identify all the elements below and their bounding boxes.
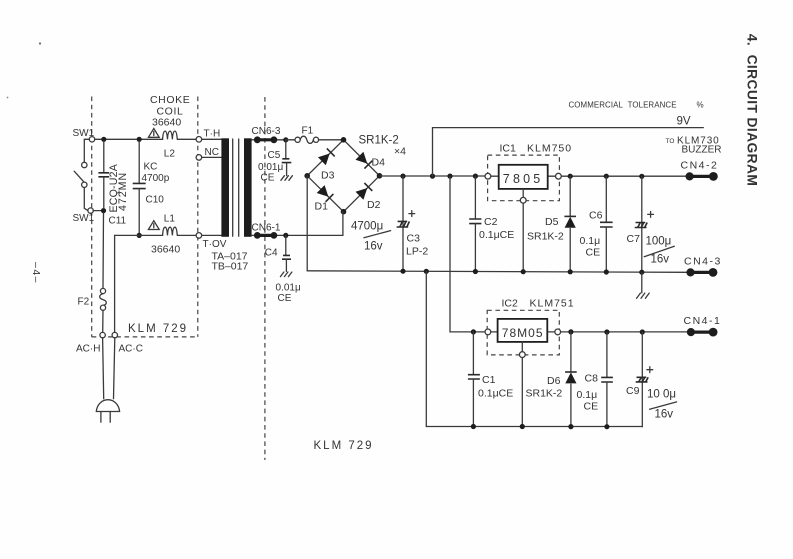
wire: plug cord left — [103, 338, 104, 399]
switch SW1 arm — [74, 171, 84, 182]
connector CN6-1 pin 2 — [271, 232, 278, 239]
node: C8 tap — [604, 329, 609, 334]
plus sign C7 — [648, 212, 654, 218]
node: junction C10 bottom on L1 wire — [137, 233, 142, 238]
svg-text:10 0μ: 10 0μ — [647, 389, 676, 401]
switch SW1 upper throw contact — [82, 162, 87, 167]
svg-text:C2: C2 — [484, 216, 498, 228]
connector CN4-3 pin inner — [686, 268, 694, 276]
wire: IC2 output rail to CN4-1 — [561, 331, 688, 333]
terminal AC-H — [100, 332, 105, 337]
switch SW1 top fixed contact — [89, 137, 94, 142]
IC2 ground pin — [519, 352, 525, 358]
capacitor C7 upper lead — [641, 176, 643, 272]
svg-text:0.1μ: 0.1μ — [577, 389, 598, 401]
svg-text:D5: D5 — [545, 216, 559, 228]
svg-text:0.1μCE: 0.1μCE — [479, 229, 514, 241]
svg-text:×4: ×4 — [394, 146, 406, 158]
KLM729 board dashed outline bottom edge — [92, 336, 197, 338]
wire: 0V rail section 1 to CN4-3 — [307, 271, 687, 273]
capacitor C5 plates — [282, 159, 292, 163]
fraction slash (C9) — [650, 402, 677, 409]
node: 9V branch tap — [430, 174, 435, 179]
svg-text:0.1μCE: 0.1μCE — [478, 388, 513, 400]
wire: junction down to fuse F2 — [102, 213, 105, 288]
connector CN4-2 pin inner — [686, 172, 694, 180]
svg-text:KLM 729: KLM 729 — [314, 440, 374, 452]
IC1 module dashed box — [488, 155, 560, 201]
svg-text:4700μ: 4700μ — [351, 221, 383, 233]
wire: F1 to bridge top node — [319, 139, 344, 141]
diode D1 — [317, 185, 329, 197]
svg-text:T·OV: T·OV — [203, 239, 227, 250]
fuse F2 top terminal — [100, 288, 105, 293]
node: C3 bottom — [400, 269, 405, 274]
svg-text:SW1: SW1 — [73, 128, 95, 139]
wire: F2 to AC-H terminal — [102, 310, 104, 332]
node: IC2 feed tap — [447, 174, 452, 179]
svg-text:78M05: 78M05 — [502, 326, 544, 340]
svg-text:0.1μ: 0.1μ — [580, 235, 601, 247]
svg-text:CN4-3: CN4-3 — [684, 256, 722, 268]
svg-text:KC: KC — [144, 162, 158, 173]
svg-text:4. CIRCUIT DIAGRAM: 4. CIRCUIT DIAGRAM — [745, 34, 760, 186]
node: IC1 ground bottom — [521, 269, 526, 274]
terminal AC-C — [112, 332, 117, 337]
svg-text:TB–017: TB–017 — [212, 261, 249, 273]
node: link to lower 0V rail — [424, 269, 429, 274]
switch SW1 bottom fixed contact — [88, 208, 93, 213]
wire: choke L2 to terminal T-H — [178, 138, 197, 140]
wire: secondary top to CN6-3 — [252, 139, 286, 141]
IC2 module dashed box — [487, 310, 559, 355]
main board dashed boundary line — [264, 97, 266, 460]
capacitor C3 lead — [402, 176, 404, 271]
capacitor C6 lower lead — [605, 227, 607, 272]
capacitor C6 plates — [600, 222, 613, 227]
node: D5 bottom — [568, 269, 573, 274]
svg-text:KLM750: KLM750 — [527, 143, 572, 155]
IC2 ground pin lead — [521, 342, 523, 352]
capacitor C11 plates — [98, 173, 109, 177]
diode D2 — [356, 188, 368, 200]
svg-text:D3: D3 — [321, 170, 335, 182]
wire: IC2 ground to lower 0V rail — [521, 358, 523, 427]
node: C7 bottom / ground stem — [639, 270, 644, 275]
fraction slash (C7) — [644, 246, 674, 256]
svg-text:SR1K-2: SR1K-2 — [526, 388, 563, 400]
svg-text:AC·H: AC·H — [76, 344, 100, 355]
IC2 output pin — [555, 329, 561, 335]
IC1 ground pin — [520, 197, 526, 203]
transformer T-OV terminal — [196, 233, 202, 239]
node: C3 tap on DC+ rail — [400, 174, 405, 179]
svg-text:472MN: 472MN — [117, 172, 129, 211]
svg-text:36640: 36640 — [151, 244, 180, 256]
node: junction C11 bottom / fuse feed — [101, 208, 106, 213]
capacitor C3 polarized plate — [397, 221, 410, 227]
safety warning triangle at L2 — [148, 129, 159, 138]
capacitor C5 lead — [285, 140, 287, 159]
fraction slash (C3 value) — [364, 231, 391, 238]
svg-text:C5: C5 — [268, 150, 281, 161]
node: junction C5 tap — [283, 137, 288, 142]
svg-text:CN4-1: CN4-1 — [684, 315, 722, 327]
svg-text:C4: C4 — [265, 248, 278, 259]
IC1 output pin — [556, 173, 562, 179]
wire: T-H to primary winding — [202, 138, 222, 140]
svg-text:D6: D6 — [547, 375, 561, 387]
AC plug body — [96, 400, 119, 412]
svg-text:D2: D2 — [367, 199, 381, 211]
wire: SW1 lower contact lead — [84, 188, 88, 211]
wire: bridge DC- drop — [306, 176, 308, 271]
svg-text:16v: 16v — [655, 409, 674, 421]
svg-text:C3: C3 — [407, 233, 421, 245]
svg-text:–4–: –4– — [30, 262, 42, 284]
svg-text:36640: 36640 — [152, 117, 181, 129]
plus sign C3 — [409, 211, 415, 217]
wire: AC neutral line to choke L1 — [115, 234, 163, 236]
node: C1 tap — [471, 329, 476, 334]
connector CN4-2 thick link — [690, 175, 714, 178]
node: C6 tap — [604, 174, 609, 179]
wire: IC2 feed riser and input — [450, 176, 555, 332]
wire: link between 0V rails — [425, 271, 427, 426]
svg-text:CE: CE — [278, 293, 292, 304]
capacitor C4 lower lead — [285, 260, 287, 272]
fuse F1 element — [300, 136, 313, 143]
wire: T-OV to primary winding — [202, 234, 222, 236]
KLM729 board dashed outline left edge — [91, 97, 93, 337]
node: bridge bottom (AC) — [341, 209, 347, 215]
svg-text:4700p: 4700p — [142, 173, 170, 184]
svg-text:16v: 16v — [364, 241, 383, 253]
node: C2 bottom — [473, 269, 478, 274]
IC2 input pin — [485, 329, 491, 335]
wire: CN6-3 junction to fuse F1 — [286, 139, 295, 141]
svg-text:BUZZER: BUZZER — [682, 145, 722, 156]
capacitor C4 plates — [282, 255, 291, 259]
regulator IC2 78M05 box — [498, 319, 548, 342]
inductor L1 coil — [163, 227, 178, 235]
svg-text:7805: 7805 — [503, 172, 544, 186]
svg-text:CN6-3: CN6-3 — [252, 126, 281, 137]
diode D3 — [318, 154, 330, 166]
plus sign C9 — [647, 367, 653, 373]
svg-text:IC2: IC2 — [502, 298, 519, 310]
svg-text:T·H: T·H — [204, 129, 221, 140]
capacitor C8 upper lead — [606, 332, 608, 377]
capacitor C1 upper lead — [472, 332, 474, 374]
svg-text:C10: C10 — [146, 195, 165, 206]
svg-text:KLM751: KLM751 — [530, 298, 575, 310]
svg-text:C8: C8 — [585, 373, 599, 385]
capacitor C8 plates — [601, 377, 613, 382]
svg-text:CHOKE: CHOKE — [150, 94, 190, 106]
fuse F2 element — [100, 294, 107, 306]
connector CN6-1 thick link — [257, 234, 274, 237]
diode D6 leads — [570, 332, 572, 427]
fuse F2 bottom terminal — [100, 305, 105, 310]
capacitor C1 plates — [468, 375, 480, 379]
capacitor C10 top lead — [138, 141, 140, 183]
capacitor C9 polarized plate — [636, 377, 649, 382]
fuse F1 right terminal — [313, 137, 318, 142]
node: bridge right (DC+) — [377, 173, 383, 179]
connector CN4-1 pin inner — [687, 328, 695, 336]
wire: secondary bottom CN6-1 line to bridge bottom — [252, 234, 343, 236]
svg-text:C6: C6 — [589, 210, 603, 222]
svg-text:9V: 9V — [677, 116, 691, 128]
connector CN6-1 pin 1 — [254, 232, 261, 239]
node: bridge left (DC-) — [304, 173, 310, 179]
chassis ground symbol — [637, 293, 650, 298]
svg-text:COMMERCIAL TOLERANCE: COMMERCIAL TOLERANCE — [569, 100, 677, 109]
svg-text:%: % — [697, 100, 704, 109]
node: bridge top (AC) — [341, 137, 347, 143]
connector CN4-3 pin outer — [709, 268, 718, 277]
svg-text:CE: CE — [584, 401, 599, 413]
node: C2 tap — [473, 174, 478, 179]
diode D6 — [565, 372, 576, 383]
wire: AC hot top line from SW1 to choke L2 — [95, 138, 163, 140]
svg-text:D1: D1 — [315, 201, 329, 213]
svg-text:F2: F2 — [78, 297, 90, 308]
capacitor C2 upper lead — [474, 176, 476, 219]
node: junction C4 tap — [283, 233, 288, 238]
node: junction C10 top — [137, 137, 142, 142]
capacitor C7 polarized plate — [635, 223, 648, 228]
node: IC2 ground bottom — [520, 424, 525, 429]
svg-text:0.01μ: 0.01μ — [276, 283, 301, 294]
svg-text:L2: L2 — [164, 149, 176, 160]
svg-text:D4: D4 — [372, 157, 386, 169]
chassis ground at C4 — [280, 272, 292, 277]
IC1 ground pin lead — [522, 189, 524, 198]
capacitor C2 lower lead — [474, 224, 476, 272]
KLM729 board dashed outline right edge — [197, 97, 199, 337]
connector CN6-3 pin 2 — [271, 136, 278, 143]
connector CN6-3 thick link — [257, 138, 274, 141]
node: C7 tap — [639, 174, 644, 179]
capacitor C11 top lead — [103, 141, 105, 172]
chassis ground at C5 — [281, 176, 293, 181]
wire: AC-C riser from L1 line — [114, 235, 116, 332]
svg-text:CN4-2: CN4-2 — [681, 160, 719, 172]
op-amp/regulator IC1 7805 box — [499, 165, 548, 189]
safety warning triangle at L1 — [148, 221, 159, 230]
wire: IC1 ground to 0V rail — [522, 203, 524, 271]
capacitor C8 lower lead — [606, 382, 608, 426]
node: C6 bottom — [604, 269, 609, 274]
svg-text:C1: C1 — [482, 374, 496, 386]
svg-text:CE: CE — [586, 247, 601, 259]
inductor L2 coil — [163, 131, 178, 139]
wire: plug cord right — [114, 338, 115, 399]
capacitor C9 lead (riser from lower rail) — [641, 332, 643, 427]
node: D6 bottom — [568, 424, 573, 429]
connector CN4-1 pin outer — [709, 328, 718, 337]
svg-text:0.01μ: 0.01μ — [258, 162, 283, 173]
diode D5 leads — [569, 176, 571, 272]
wire: lower 0V rail — [426, 426, 642, 428]
IC1 input pin — [485, 173, 491, 179]
transformer primary winding bar — [221, 138, 229, 237]
capacitor C5 lower lead — [286, 163, 288, 176]
ground stem below rail — [641, 272, 643, 293]
node: D5 tap on regulated rail — [568, 174, 573, 179]
scan speck — [39, 42, 41, 44]
connector CN4-1 thick link — [691, 331, 713, 334]
connector CN4-3 thick link — [691, 271, 714, 274]
svg-text:F1: F1 — [302, 126, 314, 137]
capacitor C10 plates — [133, 183, 146, 188]
svg-text:C11: C11 — [109, 216, 127, 227]
capacitor C6 upper lead — [605, 176, 607, 222]
wire: SW1 bottom to C11 junction — [93, 210, 103, 212]
capacitor C11 bottom lead — [103, 177, 105, 208]
transformer secondary winding bar — [244, 138, 252, 237]
connector CN6-3 pin 1 — [254, 136, 261, 143]
fuse F1 left terminal — [295, 137, 300, 142]
bridge rectifier frame D1-D4 — [307, 140, 379, 212]
svg-text:AC·C: AC·C — [119, 344, 143, 355]
svg-text:C9: C9 — [626, 385, 640, 397]
diode D4 — [356, 152, 368, 164]
node: C9 tap — [640, 329, 645, 334]
node: junction C11 top — [101, 137, 106, 142]
svg-text:C7: C7 — [627, 233, 641, 245]
capacitor C10 bottom lead — [138, 189, 140, 234]
capacitor C4 lead — [285, 235, 287, 255]
svg-text:SR1K-2: SR1K-2 — [359, 135, 399, 147]
wire: SW1 top contact lead — [84, 139, 89, 162]
capacitor C2 plates — [469, 219, 481, 224]
capacitor C1 lower lead — [472, 379, 474, 426]
svg-text:NC: NC — [205, 147, 219, 158]
svg-text:TO: TO — [666, 138, 675, 145]
transformer T-H terminal — [196, 137, 202, 143]
wire: L1 to terminal T-OV — [178, 234, 197, 236]
wire: NC terminal lead — [202, 156, 222, 158]
svg-text:16v: 16v — [651, 254, 670, 266]
transformer core lines — [233, 139, 239, 236]
svg-text:SW1: SW1 — [73, 213, 95, 224]
svg-text:IC1: IC1 — [500, 143, 517, 155]
node: C8 bottom — [604, 424, 609, 429]
AC plug prongs — [101, 412, 110, 423]
switch SW1 lower throw contact — [82, 182, 87, 187]
wire: main DC+ rail from bridge to CN4-2 — [380, 175, 687, 177]
node: C1 bottom — [471, 424, 476, 429]
svg-text:L1: L1 — [164, 213, 176, 224]
wire: riser to bridge bottom node — [342, 212, 344, 236]
svg-text:LP-2: LP-2 — [406, 246, 428, 258]
node: D6 tap — [568, 329, 573, 334]
svg-text:KLM 729: KLM 729 — [128, 323, 188, 335]
transformer NC terminal — [196, 155, 202, 161]
diode D5 — [565, 217, 576, 228]
wire: 9V branch — [433, 128, 704, 177]
connector CN4-2 pin outer — [709, 172, 718, 181]
svg-text:100μ: 100μ — [646, 236, 672, 248]
svg-text:CN6-1: CN6-1 — [252, 223, 281, 234]
svg-text:CE: CE — [261, 173, 275, 184]
svg-text:SR1K-2: SR1K-2 — [527, 231, 564, 243]
